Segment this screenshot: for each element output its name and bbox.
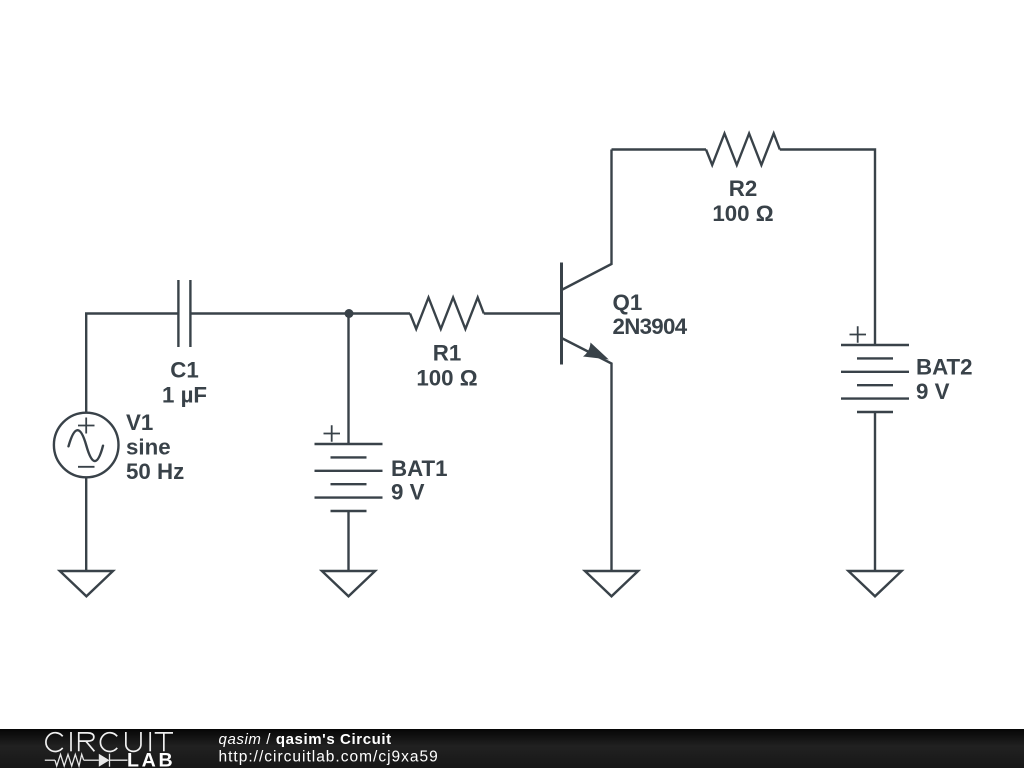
svg-text:Q1: Q1 xyxy=(613,290,643,315)
node A junction dot xyxy=(345,309,354,318)
wire V1 top vertical xyxy=(85,314,87,413)
BAT2 plus sign xyxy=(850,326,867,342)
svg-text:2N3904: 2N3904 xyxy=(613,314,688,339)
transistor Q1 emitter arrow xyxy=(583,343,609,360)
wire C1 to R1 xyxy=(190,312,410,314)
wire R1 to Q1 base xyxy=(484,312,560,314)
V1 plus sign xyxy=(78,418,95,434)
ground BAT1 xyxy=(322,571,375,596)
battery BAT1 plate short 1 xyxy=(331,456,367,458)
wire BAT1 to ground xyxy=(347,511,349,571)
letter C xyxy=(100,733,117,752)
voltage source V1 xyxy=(54,413,119,478)
svg-text:9 V: 9 V xyxy=(391,480,425,505)
logo CIRCUIT letters xyxy=(46,732,173,752)
battery BAT2 plate short 3 xyxy=(857,411,893,413)
svg-text:V1: V1 xyxy=(126,410,153,435)
logo wire left xyxy=(45,759,55,761)
wire V1 bottom vertical xyxy=(85,478,87,571)
svg-text:BAT1: BAT1 xyxy=(391,456,448,481)
svg-text:100 Ω: 100 Ω xyxy=(416,365,477,390)
letter I xyxy=(70,732,72,751)
BAT1 plus sign xyxy=(324,425,341,441)
svg-text:R1: R1 xyxy=(433,341,462,366)
capacitor C1 left plate xyxy=(177,280,179,347)
battery BAT1 plate short 2 xyxy=(331,483,367,485)
svg-text:50 Hz: 50 Hz xyxy=(126,459,184,484)
resistor R1 xyxy=(410,298,484,330)
capacitor C1 right plate xyxy=(189,280,191,347)
svg-text:9 V: 9 V xyxy=(916,379,950,404)
ground V1 xyxy=(60,571,113,596)
letter T xyxy=(155,733,173,751)
transistor Q1 collector xyxy=(562,150,612,291)
transistor Q1 emitter xyxy=(562,338,612,571)
svg-text:C1: C1 xyxy=(170,358,199,383)
svg-text:http://circuitlab.com/cj9xa59: http://circuitlab.com/cj9xa59 xyxy=(219,749,439,766)
wire V1 to C1 xyxy=(85,312,178,314)
battery BAT1 plate long 3 xyxy=(315,496,383,498)
battery BAT2 plate long 1 xyxy=(841,344,909,346)
transistor Q1 base bar xyxy=(560,263,563,365)
svg-text:1 µF: 1 µF xyxy=(162,383,207,408)
wire BAT2 to ground xyxy=(874,412,876,571)
svg-text:qasim / qasim's Circuit: qasim / qasim's Circuit xyxy=(219,731,392,748)
ground Q1 emitter xyxy=(585,571,638,596)
letter I xyxy=(149,732,151,751)
V1 minus sign xyxy=(78,466,95,468)
logo wire right xyxy=(110,759,128,761)
battery BAT2 plate long 3 xyxy=(841,397,909,399)
battery BAT2 plate long 2 xyxy=(841,371,909,373)
svg-text:BAT2: BAT2 xyxy=(916,355,973,380)
svg-text:R2: R2 xyxy=(729,176,758,201)
svg-text:LAB: LAB xyxy=(127,749,175,768)
logo diode triangle xyxy=(99,754,110,767)
wire R2 to BAT2 xyxy=(780,150,875,346)
logo wire mid xyxy=(84,759,99,761)
battery BAT1 plate short 3 xyxy=(331,510,367,512)
wire node to BAT1 xyxy=(347,315,349,444)
battery BAT2 plate short 1 xyxy=(857,357,893,359)
logo resistor zigzag xyxy=(55,754,84,766)
V1 sine wave xyxy=(69,430,104,461)
footer bar xyxy=(0,729,1024,768)
letter C xyxy=(46,733,63,752)
resistor R2 xyxy=(706,134,780,166)
wire collector to R2 xyxy=(612,148,707,150)
svg-text:100 Ω: 100 Ω xyxy=(712,201,773,226)
svg-text:sine: sine xyxy=(126,435,171,460)
letter U xyxy=(126,732,141,751)
letter R xyxy=(79,733,95,751)
ground BAT2 xyxy=(848,571,901,596)
battery BAT1 plate long 1 xyxy=(315,443,383,445)
battery BAT1 plate long 2 xyxy=(315,470,383,472)
logo diode cathode bar xyxy=(109,754,111,767)
battery BAT2 plate short 2 xyxy=(857,384,893,386)
